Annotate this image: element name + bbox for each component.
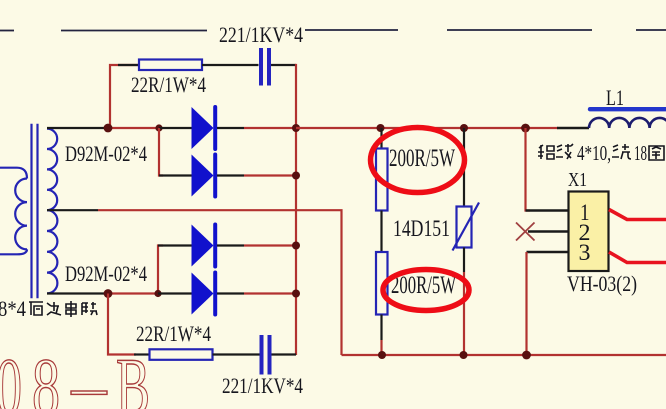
svg-text:8*4: 8*4: [0, 296, 26, 321]
wire black transformer centre tap lead: [47, 209, 98, 211]
wire red bottom-left drop (108,293.5)-(108,354.5)-(135,354.5): [108, 294, 136, 355]
svg-text:L1: L1: [606, 85, 624, 110]
pin number 2: [579, 220, 591, 245]
svg-text:8: 8: [32, 341, 60, 409]
svg-text:D92M-02*4: D92M-02*4: [65, 141, 147, 166]
wire red drop row4 to row3 (158,293.5)-(158,245.5): [158, 246, 163, 294]
junction dot (159,128): [155, 124, 162, 131]
wire black lead resistor R-top left: [118, 64, 140, 66]
wire black between 200R resistors: [380, 211, 382, 253]
svg-text:22R/1W*4: 22R/1W*4: [131, 72, 206, 97]
svg-text:3: 3: [579, 240, 591, 265]
svg-text:221/1KV*4: 221/1KV*4: [219, 22, 303, 47]
wire black lead into resistor 200R/5W no.1: [380, 128, 382, 149]
svg-text:14D151: 14D151: [393, 216, 450, 241]
wire black diode D4 cathode lead: [217, 292, 244, 294]
inductor L1 core bar: [590, 107, 666, 111]
wire black secondary bottom lead: [47, 292, 105, 294]
capacitor 221/1KV*4 top: [261, 48, 269, 86]
junction dot (296,175.5): [292, 172, 300, 180]
capacitor 221/1KV*4 bottom: [262, 335, 270, 375]
wire red varistor to rail: [463, 272, 465, 355]
wire black connector pin1 lead: [526, 209, 569, 212]
part label X1: [568, 169, 587, 191]
svg-text:4*10,: 4*10,: [577, 141, 611, 165]
fake CJK rao: [612, 144, 631, 159]
junction dot (380.5,128): [377, 124, 385, 132]
wire black lead resistor no.2 to rail: [380, 315, 382, 341]
wire dashed top bus segment 4: [447, 29, 592, 31]
resistor 200R/5W no.1: [376, 149, 388, 211]
svg-text:0: 0: [0, 341, 22, 409]
part label VH-03(2): [567, 271, 637, 296]
no-connect cross at pin2: [516, 223, 535, 241]
fake CJK bian: [47, 302, 61, 315]
wire black connector pin3 lead: [527, 251, 569, 254]
wire black row3 into diode D3: [158, 244, 192, 246]
fake CJK lian: [82, 302, 97, 315]
value label 22R/1W*4 (top): [131, 72, 206, 97]
wire black bottom row resistor to capacitor: [213, 353, 260, 355]
junction dot (108,128): [104, 124, 113, 133]
wire black bottom cap right lead: [272, 353, 297, 355]
fake CJK chuan: [66, 301, 76, 317]
value label 221/1KV*4 (bottom): [222, 373, 303, 398]
wire red centre tap to drop (98,210.2)-(341.5,210.2)-(341.5,355): [98, 210, 342, 355]
junction dot (382,355): [378, 351, 386, 359]
part label 8*4 primary series (CJK): [0, 296, 97, 321]
part label D92M-02*4 upper: [65, 141, 147, 166]
fake CJK yuan: [29, 302, 43, 315]
connector X1 body: [569, 192, 609, 272]
wire dashed top bus segment 5: [636, 29, 666, 31]
resistor 22R/1W*4 bottom: [150, 349, 213, 360]
svg-text:D92M-02*4: D92M-02*4: [65, 261, 147, 286]
wire red node row4 (108,293.5)-(158,293.5): [105, 292, 158, 294]
junction dot (464,128): [460, 124, 468, 132]
wire black lead resistor R-bottom left: [134, 353, 150, 355]
wire red vertical left snubber top (110,65)-(110,128): [110, 65, 139, 128]
svg-text:VH-03(2): VH-03(2): [567, 271, 637, 296]
wire red row1 to main vertical: [244, 127, 296, 129]
resistor 200R/5W no.2: [376, 252, 388, 315]
wire red lead resistor no.2 to rail: [380, 340, 382, 355]
wire red node row1 (108,128)-(159,128): [106, 127, 160, 129]
wire red drop row1 to row2 (159,128)-(159,175.5): [159, 128, 163, 176]
wire black diode D3 cathode lead: [217, 244, 244, 246]
wire red main vertical (296,65)-(296,355): [295, 65, 296, 355]
junction dot (108,293.5): [104, 289, 113, 298]
svg-text:X1: X1: [568, 169, 587, 191]
diode D4: [192, 273, 216, 315]
junction dot (463.5,355): [460, 351, 468, 359]
junction dot (526.5,355): [522, 351, 531, 360]
transformer T1 core: [32, 124, 38, 299]
svg-text:200R/5W: 200R/5W: [389, 145, 455, 172]
thick wire output pin1: [609, 210, 666, 220]
wire dashed top bus segment 2: [61, 30, 207, 32]
junction dot (158,293.5): [154, 290, 161, 297]
wire black lead into inductor L1: [557, 127, 589, 130]
pin number 3: [579, 240, 591, 265]
fake CJK lv: [538, 145, 554, 159]
value label 221/1KV*4 (top capacitor): [219, 22, 303, 47]
wire black varistor bottom lead: [463, 248, 465, 273]
value label 14D151: [393, 216, 450, 241]
wire dashed top bus segment 1: [0, 30, 14, 32]
part label D92M-02*4 lower: [65, 261, 147, 286]
wire black top cap right lead: [271, 64, 296, 66]
fake CJK quan: [649, 146, 664, 160]
wire black top row resistor to capacitor: [202, 64, 259, 66]
junction dot (296,293.5): [292, 290, 300, 298]
wire black connector pin2 lead: [528, 230, 569, 233]
svg-text:B: B: [116, 341, 150, 409]
wire red row4 to main vertical: [244, 292, 296, 294]
wire red connector pin3 to rail (526.5,252)-(526.5,355): [525, 252, 527, 355]
wire red row3 to main vertical: [244, 244, 296, 246]
svg-text:18: 18: [634, 141, 647, 165]
thick wire output pin3: [609, 252, 666, 263]
wire black row1 into diode D1: [159, 127, 192, 129]
varistor RV1 14D151: [453, 203, 480, 251]
wire black lead into varistor RV1: [463, 128, 465, 207]
svg-text:221/1KV*4: 221/1KV*4: [222, 373, 303, 398]
resistor 22R/1W*4 top: [139, 60, 202, 71]
transformer T1 secondary winding lower: [47, 210, 57, 293]
wire red row2 to main vertical: [244, 174, 296, 176]
transformer T1 primary winding: [0, 168, 27, 255]
part label L1: [606, 85, 624, 110]
wire black secondary top lead: [47, 127, 106, 129]
value label 200R/5W no.1: [389, 145, 455, 172]
bottom rail wire red (341.5,355)-(666,355): [342, 354, 666, 356]
junction dot (296,128): [292, 124, 300, 132]
wire red top rail to inductor (296,128)-(525.5,128): [296, 127, 558, 129]
pin number 1: [580, 200, 590, 225]
value label 22R/1W*4 (bottom): [136, 321, 211, 346]
value label 200R/5W no.2: [391, 272, 456, 299]
junction dot (525.5,128): [521, 124, 530, 133]
wire red drop to connector pin1 (525.5,128)-(525.5,210.5): [526, 128, 531, 211]
wire black diode D1 cathode lead: [217, 127, 244, 129]
diode D1: [192, 107, 216, 149]
note label aluminium wire 4*10 18 turns (CJK): [538, 141, 664, 165]
wire black diode D2 cathode lead: [217, 174, 244, 176]
wire black row4 into diode D4: [158, 292, 192, 294]
inductor L1 winding: [589, 118, 666, 128]
title block outline text 08-B: [0, 341, 150, 409]
annotation ellipse around 200R/5W no.1: [371, 128, 465, 193]
diode D3: [192, 225, 216, 267]
junction dot (296,245.5): [292, 242, 300, 250]
annotation ellipse around 200R/5W no.2: [383, 270, 469, 311]
wire black row2 into diode D2: [159, 174, 192, 176]
transformer T1 secondary winding upper: [47, 129, 57, 211]
diode D2: [192, 155, 216, 197]
fake CJK xian: [556, 144, 573, 159]
wire dashed top bus segment 3: [305, 29, 398, 31]
